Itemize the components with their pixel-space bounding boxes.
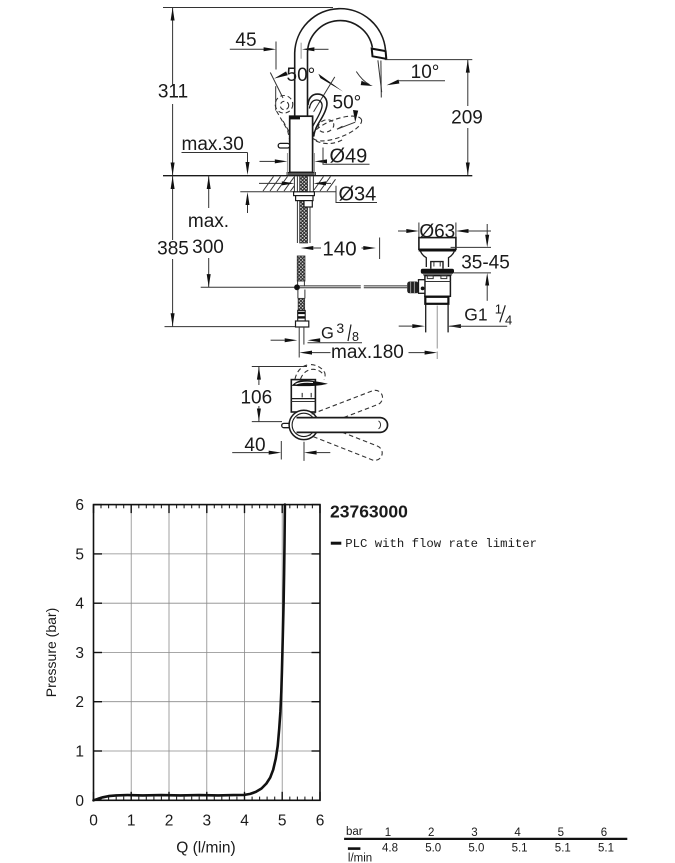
rod knurled knob <box>407 282 418 294</box>
gooseneck spout outer arc <box>295 9 386 117</box>
svg-text:3: 3 <box>336 320 344 336</box>
side view: dashed spout swivel down <box>309 421 385 462</box>
hex nut <box>296 321 309 327</box>
svg-text:bar: bar <box>346 826 363 838</box>
flow table header <box>346 826 607 839</box>
lift rod hole bump <box>431 262 443 269</box>
side view: dashed spout swivel up <box>312 388 385 428</box>
svg-text:max.30: max.30 <box>182 134 244 155</box>
flow table values <box>348 843 614 863</box>
svg-text:PLC with flow rate limiter: PLC with flow rate limiter <box>345 537 537 551</box>
rubber seal band <box>421 269 454 274</box>
side view: spout bar <box>297 418 388 433</box>
G 1 1/4 label <box>399 302 513 329</box>
50 degree label upper <box>270 65 343 112</box>
svg-text:5.0: 5.0 <box>425 843 441 855</box>
dimension 45 <box>230 30 329 70</box>
svg-text:1: 1 <box>495 302 502 317</box>
svg-text:G1: G1 <box>464 305 487 325</box>
10 degree arc arrow left <box>356 72 369 85</box>
svg-text:Q (l/min): Q (l/min) <box>176 840 235 857</box>
svg-text:4: 4 <box>514 827 521 839</box>
svg-text:385: 385 <box>157 239 189 260</box>
supply tube to node <box>297 281 299 286</box>
dashed lever rotated left <box>275 86 293 141</box>
tailpipe <box>426 304 448 359</box>
spout top extension line <box>163 7 333 9</box>
drain body <box>425 276 451 297</box>
seal washer <box>423 274 452 276</box>
svg-text:G: G <box>321 325 334 343</box>
chart minor ticks <box>101 505 312 801</box>
svg-text:0: 0 <box>75 793 84 810</box>
svg-text:3: 3 <box>471 827 477 839</box>
svg-text:Pressure (bar): Pressure (bar) <box>43 608 59 697</box>
svg-text:23763000: 23763000 <box>330 501 408 521</box>
svg-text:50°: 50° <box>333 93 362 114</box>
svg-text:2: 2 <box>75 694 84 711</box>
svg-text:140: 140 <box>322 237 356 260</box>
water direction wedge <box>378 60 382 92</box>
deck hatching <box>263 177 336 192</box>
svg-text:5.1: 5.1 <box>598 843 614 855</box>
dashed lever rotated right <box>309 111 364 146</box>
legend marker <box>331 542 342 545</box>
svg-text:4: 4 <box>240 813 249 830</box>
dimension diameter 63 <box>398 221 491 242</box>
svg-text:max.: max. <box>188 211 229 232</box>
dimension 209 <box>385 60 483 176</box>
dimension max.30 <box>182 134 250 213</box>
flange lip <box>419 249 456 252</box>
svg-text:1: 1 <box>385 827 391 839</box>
countertop deck line <box>163 175 472 177</box>
svg-text:209: 209 <box>451 108 483 129</box>
dimension max.180 <box>299 342 437 363</box>
svg-text:Ø49: Ø49 <box>330 145 368 167</box>
side view: dashed raised lever <box>295 365 325 380</box>
hole edges in deck <box>293 176 295 192</box>
dimension 311 <box>158 8 188 176</box>
svg-text:5: 5 <box>558 827 564 839</box>
side view: dimension 40 <box>232 435 330 461</box>
supply hose upper hatched section <box>297 256 305 281</box>
mounting washer <box>294 192 315 196</box>
10 degree label and leader <box>387 62 445 85</box>
chart axis tick labels <box>75 497 324 829</box>
body base plate <box>287 172 315 175</box>
supply hose lower hatched section <box>298 298 304 310</box>
G 3/8 pipe end <box>299 327 304 358</box>
dimension diameter 34 <box>259 181 377 205</box>
dimension max. 300 <box>188 176 297 288</box>
pop-up rod <box>300 286 408 288</box>
chart gridlines <box>94 505 321 801</box>
aerator tip <box>372 49 387 59</box>
svg-text:0: 0 <box>89 813 98 830</box>
svg-text:5: 5 <box>75 546 84 563</box>
svg-text:45: 45 <box>235 30 256 51</box>
svg-text:300: 300 <box>192 237 224 258</box>
side view: spout nub <box>282 423 292 427</box>
svg-text:2: 2 <box>165 813 174 830</box>
body left tab (lever end) <box>278 143 290 148</box>
svg-text:6: 6 <box>75 497 84 514</box>
svg-text:3: 3 <box>75 645 84 662</box>
side nipple <box>304 201 312 207</box>
chart frame <box>94 505 321 801</box>
svg-text:4: 4 <box>505 313 512 328</box>
svg-text:3: 3 <box>202 813 211 830</box>
lever handle loop <box>308 94 327 137</box>
clamp screw <box>421 287 425 291</box>
svg-text:Ø34: Ø34 <box>339 184 377 206</box>
svg-text:50°: 50° <box>287 65 316 86</box>
side view: cartridge hidden lines <box>301 393 303 399</box>
side view: dimension 106 <box>240 367 307 422</box>
svg-text:311: 311 <box>158 82 188 103</box>
chart flow curve <box>94 505 285 801</box>
svg-text:1: 1 <box>127 813 136 830</box>
svg-text:6: 6 <box>316 813 325 830</box>
banded coupling nut <box>298 310 306 321</box>
slip joint band <box>425 297 448 304</box>
body top black band <box>290 116 300 119</box>
svg-text:4.8: 4.8 <box>382 843 398 855</box>
faucet body <box>290 116 313 172</box>
dimension 385 <box>157 176 309 327</box>
deck underside lines <box>240 191 294 193</box>
side view: swivel ring <box>289 410 318 439</box>
gooseneck spout inner arc <box>308 21 373 117</box>
side view: lever blade <box>292 380 328 386</box>
chart major ticks <box>94 505 321 801</box>
svg-text:2: 2 <box>428 827 434 839</box>
svg-text:max.180: max.180 <box>331 342 404 363</box>
svg-text:5.0: 5.0 <box>468 843 484 855</box>
svg-text:1: 1 <box>75 744 84 761</box>
svg-text:5: 5 <box>278 813 287 830</box>
dimension 140 <box>301 237 380 260</box>
side view: body column <box>291 380 315 412</box>
funnel neck <box>421 251 455 267</box>
node junction dot <box>294 284 300 290</box>
dimension 35-45 <box>451 224 510 301</box>
G 3/8 label <box>271 320 362 344</box>
svg-text:l/min: l/min <box>348 853 372 863</box>
supply tube below node <box>297 290 299 299</box>
50 degree label lower <box>333 93 362 130</box>
mounting nut <box>296 196 313 201</box>
svg-text:106: 106 <box>240 388 272 409</box>
svg-text:5.1: 5.1 <box>512 843 528 855</box>
drain flange cup <box>419 238 456 250</box>
svg-text:4: 4 <box>75 596 84 613</box>
svg-text:35-45: 35-45 <box>461 252 510 273</box>
dimension diameter 49 <box>260 145 370 176</box>
svg-text:5.1: 5.1 <box>555 843 571 855</box>
rod clamp plate <box>419 280 425 294</box>
svg-text:6: 6 <box>601 827 607 839</box>
svg-text:10°: 10° <box>411 62 440 83</box>
flow table rule <box>344 838 627 840</box>
threaded shank <box>297 176 310 243</box>
